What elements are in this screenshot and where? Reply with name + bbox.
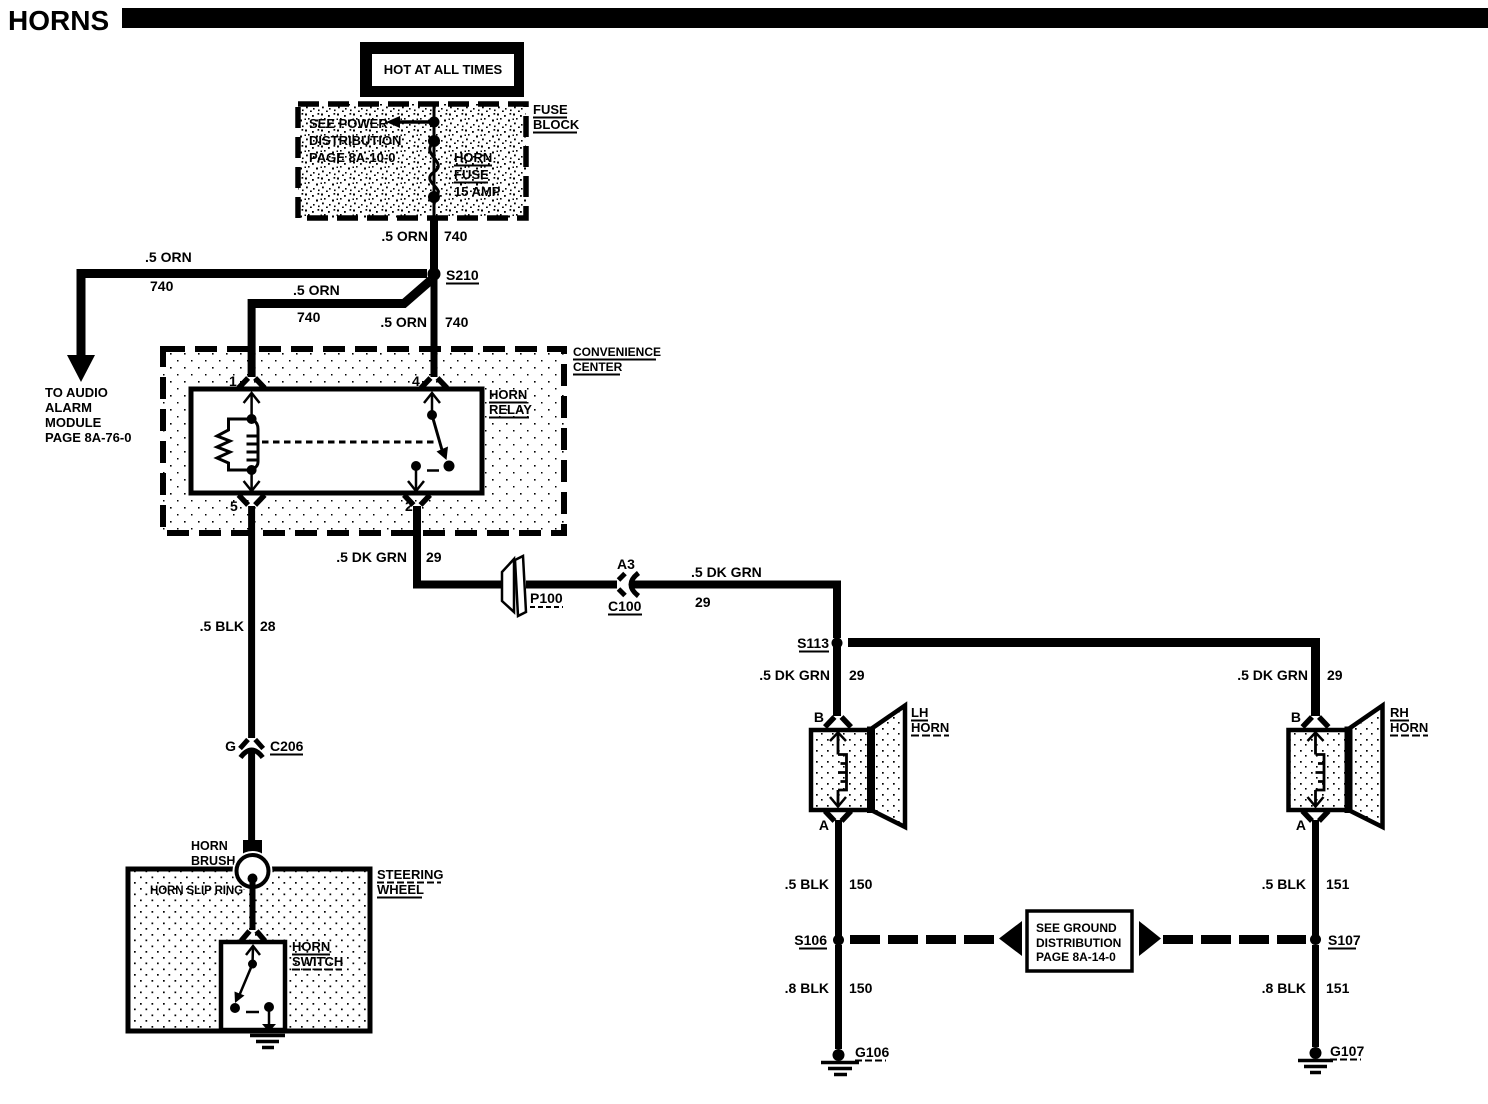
wire S210 left to audio alarm branch (81, 269, 427, 356)
wire S107 down to G107 (1312, 945, 1319, 1047)
svg-text:151: 151 (1326, 876, 1350, 892)
node switch contact dot left (230, 1003, 240, 1013)
svg-text:G106: G106 (855, 1044, 889, 1060)
wire C206 down to horn brush (248, 748, 255, 842)
ground G107 (1298, 1043, 1364, 1073)
svg-text:29: 29 (1327, 667, 1343, 683)
label CONVENIENCE CENTER (573, 345, 661, 375)
node S210 junction (428, 267, 480, 284)
label .8 BLK 151 (1262, 980, 1350, 996)
ground G106 (821, 1044, 889, 1075)
svg-text:A3: A3 (617, 556, 635, 572)
wire slip ring down to horn switch (250, 882, 256, 930)
svg-text:DISTRIBUTION: DISTRIBUTION (309, 133, 401, 148)
label SEE POWER DISTRIBUTION PAGE 8A-10-0 (309, 116, 401, 165)
svg-text:.5 ORN: .5 ORN (380, 314, 427, 330)
node junction dot upper (429, 117, 440, 128)
fuse block dashed box with stipple fill (298, 104, 526, 218)
label HORN SLIP RING (150, 885, 243, 897)
node S106 junction (794, 932, 844, 949)
svg-text:2: 2 (405, 498, 413, 514)
RH horn coil (1308, 733, 1325, 807)
power feed HOT AT ALL TIMES box (360, 42, 524, 97)
node switch pivot dot (248, 960, 257, 969)
svg-text:15 AMP: 15 AMP (454, 184, 501, 199)
label TO AUDIO ALARM MODULE PAGE 8A-76-0 (45, 385, 131, 445)
wire fuse output down to S210 (430, 217, 438, 274)
node switch contact dot left (411, 461, 421, 471)
svg-text:.8 BLK: .8 BLK (785, 980, 829, 996)
svg-text:HORN: HORN (911, 720, 949, 735)
label .5 ORN 740 (fuse output) (381, 228, 467, 244)
wire S113 down to LH horn (833, 643, 841, 716)
svg-text:PAGE 8A-76-0: PAGE 8A-76-0 (45, 430, 131, 445)
svg-text:CONVENIENCE: CONVENIENCE (573, 345, 661, 359)
label HORN RELAY (489, 387, 532, 418)
svg-text:PAGE 8A-14-0: PAGE 8A-14-0 (1036, 950, 1116, 964)
label STEERING WHEEL (377, 867, 443, 898)
label .5 DK GRN 29 (after C100) (691, 564, 762, 610)
svg-text:150: 150 (849, 876, 873, 892)
svg-text:SWITCH: SWITCH (292, 954, 343, 969)
connector pin 2 (404, 495, 430, 514)
svg-text:.5 ORN: .5 ORN (293, 282, 340, 298)
svg-text:FUSE: FUSE (454, 167, 489, 182)
svg-text:DISTRIBUTION: DISTRIBUTION (1036, 936, 1121, 950)
connector LH horn pin B (814, 709, 851, 727)
svg-text:S107: S107 (1328, 932, 1361, 948)
wire RH horn A down to S107 (1312, 820, 1319, 940)
relay linkage dashed line (262, 441, 437, 444)
svg-text:A: A (1296, 817, 1306, 833)
RH horn body (1289, 706, 1383, 828)
connector C100 A3 (608, 556, 642, 615)
connector RH horn pin B (1291, 709, 1329, 727)
svg-text:MODULE: MODULE (45, 415, 102, 430)
svg-text:WHEEL: WHEEL (377, 882, 424, 897)
node coil top dot (247, 414, 257, 424)
svg-text:ALARM: ALARM (45, 400, 92, 415)
svg-text:HORN: HORN (191, 839, 228, 853)
label .5 DK GRN 29 (RH horn) (1237, 667, 1343, 683)
svg-text:S106: S106 (794, 932, 827, 948)
horn switch box (221, 942, 285, 1030)
wire LH horn A down to S106 (835, 820, 842, 940)
wire P100 to C100 (526, 581, 617, 589)
relay switch arm (432, 415, 448, 460)
svg-text:TO AUDIO: TO AUDIO (45, 385, 108, 400)
svg-text:FUSE: FUSE (533, 102, 568, 117)
wire S106 down to G106 (835, 945, 842, 1049)
svg-text:HORNS: HORNS (8, 5, 109, 36)
svg-text:.5 ORN: .5 ORN (145, 249, 192, 265)
svg-text:A: A (819, 817, 829, 833)
horn switch arm (235, 964, 253, 1003)
LH horn coil (830, 733, 847, 807)
wire dashed to S107 (1163, 935, 1306, 944)
svg-text:B: B (1291, 709, 1301, 725)
relay switch terminal arrow (pin 2 side) (408, 466, 424, 491)
label .5 DK GRN 29 (LH horn) (759, 667, 865, 683)
svg-text:STEERING: STEERING (377, 867, 443, 882)
horn switch terminal arrow (246, 946, 260, 964)
connector pin 4 (412, 373, 447, 389)
label HORN SWITCH (292, 939, 343, 970)
svg-text:HORN: HORN (1390, 720, 1428, 735)
label RH HORN (1390, 705, 1428, 736)
wire pin 2 down and right to P100 (417, 506, 504, 585)
wire S106 dashed to ground distribution (850, 935, 997, 944)
connector RH horn pin A (1296, 811, 1329, 833)
relay box (horn relay) (191, 389, 482, 493)
wire S210 down to relay pin 4 (431, 274, 438, 377)
svg-text:SEE GROUND: SEE GROUND (1036, 921, 1117, 935)
connector C206 (225, 738, 304, 758)
label FUSE BLOCK (533, 102, 580, 133)
svg-text:.5 BLK: .5 BLK (200, 618, 244, 634)
svg-text:G: G (225, 738, 236, 754)
arrow into ground distribution (left) (999, 921, 1022, 956)
label HORN BRUSH (191, 839, 235, 868)
label .5 BLK 150 (785, 876, 873, 892)
connector pin 5 (230, 495, 265, 514)
node fuse bottom terminal dot (428, 191, 440, 203)
svg-text:5: 5 (230, 498, 238, 514)
LH horn body (811, 706, 905, 828)
svg-text:HORN: HORN (454, 150, 492, 165)
svg-text:740: 740 (444, 228, 468, 244)
svg-text:.5 DK GRN: .5 DK GRN (336, 549, 407, 565)
node fuse top terminal dot (428, 135, 440, 147)
svg-text:29: 29 (695, 594, 711, 610)
switch contact gap dash (427, 469, 439, 472)
svg-text:SEE POWER: SEE POWER (309, 116, 388, 131)
label .5 BLK 151 (1262, 876, 1350, 892)
svg-text:29: 29 (426, 549, 442, 565)
label HORN FUSE 15 AMP (454, 150, 501, 199)
svg-text:.5 DK GRN: .5 DK GRN (691, 564, 762, 580)
label LH HORN (911, 705, 949, 736)
svg-text:HORN SLIP RING: HORN SLIP RING (150, 885, 243, 897)
label .5 ORN 740 (audio branch) (145, 249, 192, 294)
title HORNS (8, 5, 109, 36)
svg-text:.5 BLK: .5 BLK (785, 876, 829, 892)
svg-text:P100: P100 (530, 590, 563, 606)
svg-text:HORN: HORN (489, 387, 527, 402)
svg-text:29: 29 (849, 667, 865, 683)
steering wheel box (128, 869, 370, 1031)
connector horn switch top (241, 931, 265, 941)
svg-text:HORN: HORN (292, 939, 330, 954)
horn slip ring circle (233, 851, 273, 891)
connector LH horn pin A (819, 811, 851, 833)
ground (horn switch) (250, 1036, 285, 1048)
svg-text:B: B (814, 709, 824, 725)
svg-text:740: 740 (297, 309, 321, 325)
label .8 BLK 150 (785, 980, 873, 996)
node switch contact dot right (264, 1002, 274, 1012)
svg-text:.8 BLK: .8 BLK (1262, 980, 1306, 996)
arrow to audio alarm module (67, 355, 95, 382)
svg-text:C206: C206 (270, 738, 304, 754)
svg-text:HOT AT ALL TIMES: HOT AT ALL TIMES (384, 62, 503, 77)
relay coil (zigzag + winding loop) (217, 419, 258, 470)
node S107 junction (1310, 932, 1361, 949)
label .5 DK GRN 29 (pin 2) (336, 549, 442, 565)
see ground distribution box (1027, 911, 1132, 971)
svg-text:LH: LH (911, 705, 928, 720)
svg-text:BRUSH: BRUSH (191, 854, 235, 868)
node switch contact dot right (444, 461, 455, 472)
title bar (122, 8, 1488, 28)
svg-text:BLOCK: BLOCK (533, 117, 580, 132)
connector pin 1 (229, 373, 265, 389)
label .5 BLK 28 (200, 618, 276, 634)
svg-text:PAGE 8A-10-0: PAGE 8A-10-0 (309, 150, 395, 165)
see power distribution arrow (386, 116, 434, 128)
wire fuse block internal vertical (433, 104, 436, 217)
switch contact gap dash (246, 1011, 259, 1014)
label .5 ORN 740 (pin4 feed) (380, 314, 468, 330)
svg-text:.5 ORN: .5 ORN (381, 228, 428, 244)
svg-text:.5 DK GRN: .5 DK GRN (759, 667, 830, 683)
wire C100 right and down to S113 (630, 585, 837, 639)
relay switch terminal arrow (pin 4 side) (424, 393, 440, 415)
convenience center dashed box (163, 349, 564, 533)
connector P100 grommet (502, 556, 563, 616)
node switch pivot dot (427, 410, 437, 420)
relay coil terminal arrow (pin 1 side) (244, 393, 260, 419)
svg-text:150: 150 (849, 980, 873, 996)
svg-text:.5 BLK: .5 BLK (1262, 876, 1306, 892)
svg-text:28: 28 (260, 618, 276, 634)
svg-text:740: 740 (150, 278, 174, 294)
svg-text:RELAY: RELAY (489, 402, 532, 417)
wire S113 to RH horn (848, 643, 1316, 717)
node S113 junction (797, 635, 842, 652)
arrow out of ground distribution (right) (1139, 921, 1161, 956)
node coil bottom dot (247, 465, 257, 475)
svg-text:C100: C100 (608, 598, 642, 614)
fuse HORN FUSE 15 AMP element (430, 142, 439, 197)
wire S210 diagonal branch to relay pin 1 (252, 280, 431, 377)
horn brush contact square (243, 840, 262, 857)
svg-text:S113: S113 (797, 635, 829, 651)
svg-text:CENTER: CENTER (573, 360, 623, 374)
relay coil terminal arrow (pin 5 side) (244, 470, 260, 491)
wire pin 5 down to C206 (248, 506, 255, 738)
svg-text:.5 DK GRN: .5 DK GRN (1237, 667, 1308, 683)
svg-text:740: 740 (445, 314, 469, 330)
svg-text:151: 151 (1326, 980, 1350, 996)
label .5 ORN 740 (pin1 branch) (293, 282, 340, 325)
svg-text:S210: S210 (446, 267, 479, 283)
wire contact to ground (262, 1007, 276, 1032)
svg-text:RH: RH (1390, 705, 1409, 720)
svg-text:G107: G107 (1330, 1043, 1364, 1059)
